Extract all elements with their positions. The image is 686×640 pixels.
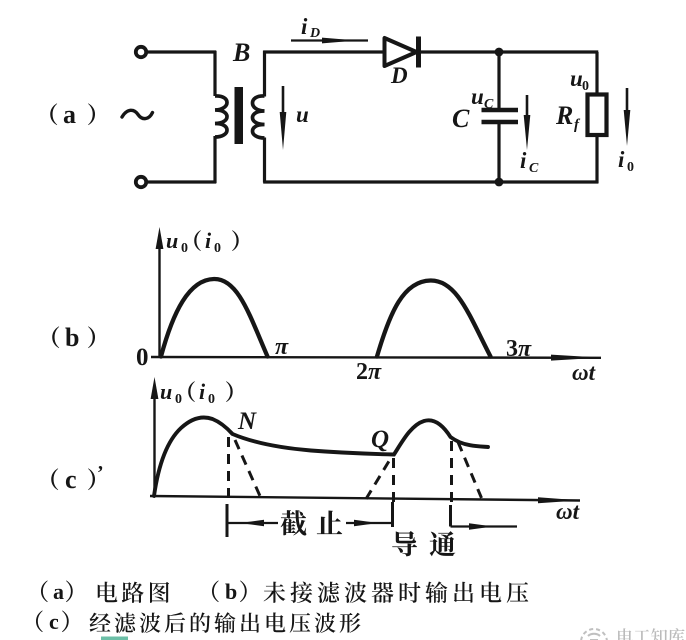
graph c y-axis label u0(i0) [160, 379, 182, 407]
svg-text:c: c [65, 465, 77, 494]
svg-text:2π: 2π [356, 359, 382, 385]
wire (top-left horizontal) [147, 50, 216, 53]
svg-text:i: i [205, 228, 212, 253]
wire (secondary lower vertical) [263, 138, 266, 183]
label (c) [51, 468, 58, 490]
graph c vertical tick below Q annotation [391, 502, 394, 527]
current arrow iD [291, 38, 368, 44]
label i_C [520, 148, 539, 176]
current arrow iC [524, 95, 531, 150]
svg-text:c: c [49, 609, 59, 634]
graph c dashed falling sine segment after second peak [458, 442, 482, 498]
svg-text:Q: Q [371, 426, 389, 453]
svg-text:a: a [63, 100, 76, 129]
text conduction (daotong) [392, 531, 417, 556]
svg-text:0: 0 [181, 241, 188, 256]
svg-text:ωt: ωt [572, 360, 596, 385]
wire (capacitor lower lead) [497, 124, 500, 182]
caption circuit-diagram text [98, 582, 118, 603]
graph c y-axis [151, 377, 159, 497]
graph c dashed falling sine segment after N [235, 440, 260, 496]
svg-text:3π: 3π [506, 336, 532, 362]
svg-text:i: i [618, 147, 625, 172]
diode D [385, 37, 419, 68]
wire (bottom-left horizontal) [147, 180, 216, 183]
svg-text:u: u [160, 379, 172, 404]
graph c dashed vertical at N [227, 437, 230, 504]
graph c dashed vertical at Q [392, 458, 395, 502]
graph c dashed vertical at second peak end [450, 441, 453, 503]
label u_C [471, 84, 494, 112]
svg-text:b: b [225, 579, 237, 604]
wire (top rail, secondary to diode) [263, 50, 385, 53]
capacitor C [482, 110, 519, 122]
label i_D [301, 14, 320, 41]
terminal (top-left input) [136, 47, 146, 57]
svg-text:u: u [471, 84, 484, 109]
graph b y-axis label u0(i0) [166, 228, 188, 256]
caption output-voltage-without-filter text [264, 582, 286, 603]
AC source symbol ~ [122, 110, 153, 118]
green underline mark [101, 637, 128, 640]
svg-text:0: 0 [208, 392, 215, 407]
svg-text:0: 0 [582, 79, 589, 94]
transformer B primary winding [215, 96, 227, 137]
caption (c) marker [36, 610, 43, 632]
svg-text:R: R [555, 101, 573, 130]
conduction interval arrow [451, 523, 518, 529]
label i_0 [618, 147, 634, 175]
graph c filtered output curve [154, 418, 488, 496]
caption (b) marker [212, 580, 219, 602]
watermark text dian-gong-zhi-ku [618, 628, 633, 640]
wire (primary lower vertical) [213, 136, 216, 183]
svg-text:ωt: ωt [556, 499, 580, 524]
transformer B secondary winding [253, 96, 265, 138]
svg-text:C: C [484, 97, 494, 112]
svg-text:b: b [65, 323, 79, 352]
resistor Rf [588, 95, 607, 136]
wire (primary upper vertical) [213, 51, 216, 96]
svg-text:i: i [301, 14, 308, 39]
svg-text:N: N [237, 408, 257, 435]
node (capacitor top junction) [495, 48, 504, 57]
voltage arrow u [280, 86, 287, 150]
graph c dashed rising sine segment before Q [366, 457, 392, 499]
svg-text:u: u [166, 228, 178, 253]
cutoff interval right arrow [346, 520, 391, 526]
svg-text:u: u [296, 102, 309, 127]
svg-text:0: 0 [214, 241, 221, 256]
wire (resistor upper lead) [595, 52, 598, 95]
label R_f [555, 101, 581, 133]
cutoff interval left arrow [227, 520, 278, 526]
label (b) [52, 326, 59, 348]
svg-text:D: D [390, 63, 408, 88]
graph c vertical tick below N annotation [226, 504, 229, 537]
svg-text:C: C [529, 161, 539, 176]
wire (capacitor upper lead) [497, 52, 500, 108]
svg-text:0: 0 [175, 392, 182, 407]
caption filtered-output-waveform text [90, 613, 111, 632]
wire (top rail, diode to right corner) [421, 50, 598, 53]
svg-text:C: C [452, 104, 470, 133]
node (capacitor bottom junction) [495, 178, 504, 187]
svg-text:B: B [232, 38, 250, 67]
svg-text:π: π [275, 334, 289, 360]
current arrow i0 [624, 88, 631, 146]
graph b x-axis [151, 355, 601, 361]
wire (secondary upper vertical) [263, 51, 266, 97]
transformer B core [235, 87, 244, 144]
wire (resistor lower lead) [595, 135, 598, 183]
watermark logo [581, 629, 607, 640]
svg-text:i: i [520, 148, 527, 173]
label (a) [50, 103, 57, 125]
text cutoff (jiezhi) [281, 510, 307, 535]
graph c vertical tick at conduction end [449, 505, 452, 527]
svg-text:i: i [199, 379, 206, 404]
wire (bottom rail) [263, 180, 598, 183]
svg-text:0: 0 [136, 344, 149, 371]
label u_0 [570, 66, 589, 94]
graph b y-axis [156, 227, 164, 357]
svg-text:0: 0 [627, 160, 634, 175]
graph b sine hump 2 [377, 280, 491, 356]
svg-text:’: ’ [97, 462, 104, 484]
svg-text:a: a [53, 579, 64, 604]
graph c x-axis [150, 496, 580, 503]
terminal (bottom-left input) [136, 177, 146, 187]
caption (a) marker [41, 580, 48, 602]
graph b sine hump 1 [161, 279, 268, 357]
svg-text:D: D [309, 26, 320, 41]
